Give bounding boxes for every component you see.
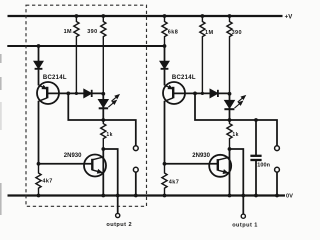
wire lower terminal to 0V (right) [276, 172, 278, 195]
terminal (left upper) [133, 146, 138, 151]
resistor R7 390 (right) [227, 16, 232, 94]
svg-text:6k8: 6k8 [168, 29, 178, 35]
wire Q4 base [165, 163, 218, 165]
LED2 (right) [229, 94, 231, 120]
0V rail [8, 194, 286, 196]
svg-text:0V: 0V [286, 194, 293, 200]
resistor R4 4k7 (left) [36, 164, 41, 196]
resistor R6 1M (right) [200, 16, 205, 93]
resistor R2 390 (left) [101, 16, 106, 94]
svg-text:1M: 1M [205, 30, 213, 36]
svg-text:4k7: 4k7 [42, 179, 52, 185]
terminal (right upper) [275, 146, 280, 151]
resistor R5 6k8 (right) [162, 16, 167, 46]
terminal (left lower) [133, 167, 138, 172]
+V rail [8, 15, 283, 17]
resistor R3 1k (left) [101, 120, 106, 149]
svg-text:1k: 1k [106, 132, 112, 138]
terminal output 1 [241, 214, 245, 218]
transistor Q1 BC214L (left) [37, 82, 59, 104]
svg-text:390: 390 [87, 29, 97, 35]
resistor R9 4k7 (right) [162, 164, 167, 196]
transistor Q3 BC214L (right) [163, 82, 185, 104]
wire Q1 base [47, 92, 103, 94]
diode D3 (right emitter diode) [164, 46, 166, 62]
svg-text:output 2: output 2 [106, 222, 132, 228]
wire collector branch to output 2 [103, 149, 117, 213]
svg-text:2N930: 2N930 [64, 153, 82, 159]
LED1 (left) [102, 94, 104, 120]
wire Q3 base [173, 92, 229, 94]
svg-text:BC214L: BC214L [43, 75, 67, 81]
LED1 emission arrows [108, 103, 113, 108]
wire Q2 base [39, 163, 93, 165]
transistor Q2 2N930 (left) [84, 155, 106, 177]
wire base node down to output network (left) [68, 93, 136, 145]
terminal output 2 [116, 213, 120, 217]
diode D2 (left coupling diode) [84, 90, 91, 97]
resistor R8 1k (right) [227, 120, 232, 149]
svg-text:100n: 100n [257, 163, 270, 169]
svg-text:390: 390 [232, 30, 242, 36]
svg-text:4k7: 4k7 [169, 179, 179, 185]
second rail (bias line) [7, 45, 164, 47]
wire lower terminal to 0V (left) [135, 172, 137, 195]
dashed enclosure box (output 2 module) [26, 5, 147, 206]
diode D1 (left emitter diode) [38, 46, 40, 62]
svg-text:+V: +V [285, 14, 293, 20]
svg-text:1M: 1M [64, 29, 72, 35]
LED2 emission arrows [235, 104, 240, 109]
resistor R1 1M (left) [74, 16, 79, 93]
terminal (right lower) [275, 167, 280, 172]
svg-text:output 1: output 1 [232, 223, 258, 229]
svg-text:BC214L: BC214L [172, 75, 196, 81]
transistor Q4 2N930 (right) [209, 155, 231, 177]
diode D4 (right coupling diode) [210, 90, 217, 97]
svg-text:2N930: 2N930 [192, 153, 210, 159]
svg-text:1k: 1k [232, 132, 238, 138]
wire base node down to output network (right) [195, 93, 277, 145]
capacitor C1 100n [255, 120, 257, 155]
wire collector branch to output 1 [230, 149, 244, 214]
